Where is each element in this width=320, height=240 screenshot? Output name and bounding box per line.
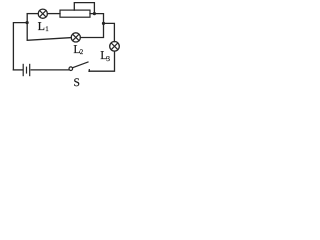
wire node B right and down to lamp L3	[104, 23, 115, 41]
junction dot (tap joins right wire)	[93, 12, 96, 15]
resistor R (box)	[60, 10, 90, 17]
svg-text:L: L	[38, 19, 45, 33]
switch S fixed contact tick	[88, 70, 90, 72]
switch S lever (open)	[73, 62, 88, 68]
battery cell plates	[23, 64, 30, 75]
wire below L3 down and left along bottom to switch contact	[89, 51, 115, 71]
lamp L1	[38, 9, 47, 18]
wire branch vertical down to L2 level	[27, 14, 71, 41]
svg-text:1: 1	[45, 25, 49, 33]
wire battery to switch pivot	[31, 69, 69, 71]
lamp L3	[110, 42, 120, 52]
wire bottom-left corner to battery	[13, 69, 22, 71]
wire L1 to resistor box	[47, 13, 60, 15]
lamp L2	[71, 33, 80, 42]
wire box right to corner, down to node B	[90, 14, 104, 23]
svg-text:S: S	[74, 77, 80, 89]
switch S pivot	[69, 67, 73, 71]
junction node B dot	[102, 22, 105, 25]
wire left vertical with corners	[13, 23, 27, 70]
slider tap wire loop over box	[74, 3, 94, 13]
wire top-left to lamp L1	[27, 13, 38, 15]
svg-text:2: 2	[80, 48, 84, 56]
wire L2 right up to node B	[80, 24, 103, 38]
junction node A dot	[26, 21, 29, 24]
svg-text:3: 3	[106, 54, 110, 63]
